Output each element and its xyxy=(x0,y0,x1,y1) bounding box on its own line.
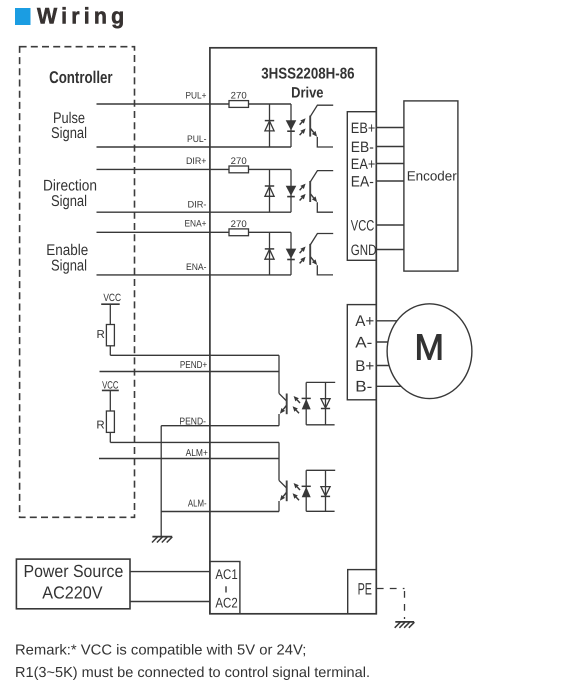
svg-text:GND: GND xyxy=(351,242,377,259)
svg-text:270: 270 xyxy=(231,91,247,102)
svg-text:PEND+: PEND+ xyxy=(180,360,207,371)
phototransistor (ALM opto) xyxy=(278,442,280,480)
svg-text:VCC: VCC xyxy=(351,217,375,234)
power source box xyxy=(16,559,130,609)
wire resistor to LED branch (DIR) xyxy=(249,168,292,170)
wire VCC2 pull-up rail xyxy=(110,441,279,443)
diode clamp (PUL) xyxy=(269,104,271,147)
drive box xyxy=(210,48,376,614)
wire AC line 1 xyxy=(130,571,210,573)
svg-text:VCC: VCC xyxy=(103,292,121,304)
wire ALM+ xyxy=(99,458,279,460)
svg-text:PUL-: PUL- xyxy=(187,134,207,145)
wire EB+ to encoder xyxy=(376,127,404,129)
resistor R1 xyxy=(106,325,114,346)
opto light arrows (PEND) xyxy=(297,400,300,403)
svg-text:ENA-: ENA- xyxy=(186,262,207,273)
diode clamp (ALM opto) xyxy=(325,470,327,511)
phototransistor (DIR opto) xyxy=(309,181,311,202)
wire ALM- xyxy=(161,511,279,513)
svg-text:R1(3~5K) must be connected to: R1(3~5K) must be connected to control si… xyxy=(15,665,370,681)
phototransistor (PEND opto) xyxy=(278,355,280,393)
motor terminal block xyxy=(347,305,376,400)
wire EB- to encoder xyxy=(376,146,404,148)
wire PUL- xyxy=(97,146,292,148)
wire opto rails (PEND) xyxy=(306,381,335,383)
opto light arrows (PUL) xyxy=(300,122,303,125)
controller box (dashed) xyxy=(20,47,135,518)
ground (earth at PE) xyxy=(395,621,414,623)
wire ENA- xyxy=(97,274,292,276)
ground (signal) xyxy=(152,536,172,538)
svg-text:270: 270 xyxy=(231,219,247,230)
wire A- to motor xyxy=(376,341,404,343)
LED (ENA opto) xyxy=(290,232,292,275)
wire GND to encoder xyxy=(376,249,404,251)
svg-text:ALM-: ALM- xyxy=(188,498,207,509)
svg-text:EB-: EB- xyxy=(351,139,374,156)
svg-text:AC220V: AC220V xyxy=(42,583,103,603)
svg-text:M: M xyxy=(415,327,445,368)
wire EA- to encoder xyxy=(376,180,404,182)
svg-text:AC2: AC2 xyxy=(215,595,237,611)
svg-text:R: R xyxy=(96,420,104,432)
terminal block PE xyxy=(348,570,377,614)
svg-text:R: R xyxy=(96,329,104,341)
svg-text:Encoder: Encoder xyxy=(407,169,457,184)
wire signal ground bus xyxy=(160,426,162,537)
wire DIR- xyxy=(97,211,292,213)
wire opto rails (ALM) xyxy=(306,469,335,471)
diode clamp (DIR) xyxy=(269,169,271,212)
phototransistor (PUL opto) xyxy=(309,116,311,137)
svg-text:Enable: Enable xyxy=(46,242,88,259)
svg-text:AC1: AC1 xyxy=(215,566,237,582)
svg-text:270: 270 xyxy=(231,156,247,167)
svg-text:3HSS2208H-86: 3HSS2208H-86 xyxy=(261,65,355,82)
svg-text:Signal: Signal xyxy=(51,193,87,210)
wire PUL+ xyxy=(97,103,230,105)
terminal divider dash xyxy=(225,586,227,592)
wire VCC1 pull-up rail xyxy=(110,354,279,356)
wire resistor to LED branch (PUL) xyxy=(249,103,292,105)
diode clamp (PEND opto) xyxy=(325,382,327,424)
LED (DIR opto) xyxy=(290,169,292,212)
svg-text:PEND-: PEND- xyxy=(179,416,206,427)
wire PEND- xyxy=(161,425,279,427)
svg-text:ENA+: ENA+ xyxy=(185,219,207,230)
encoder box xyxy=(404,101,458,271)
resistor 270 (PUL) xyxy=(229,101,249,108)
LED (PUL opto) xyxy=(290,104,292,147)
wire PE to earth (dashed) xyxy=(377,588,405,590)
resistor 270 (DIR) xyxy=(229,166,249,173)
svg-text:B+: B+ xyxy=(355,358,374,375)
wire B- to motor xyxy=(376,385,404,387)
wire B+ to motor xyxy=(376,365,404,367)
wire VCC to encoder xyxy=(376,224,404,226)
wire resistor to LED branch (ENA) xyxy=(249,231,292,233)
svg-text:EB+: EB+ xyxy=(351,120,376,137)
LED (ALM opto) xyxy=(305,470,307,511)
diode clamp (ENA) xyxy=(269,232,271,275)
svg-text:Signal: Signal xyxy=(51,125,87,142)
svg-text:Signal: Signal xyxy=(51,258,87,275)
opto light arrows (ENA) xyxy=(300,250,303,253)
svg-text:B-: B- xyxy=(355,379,372,396)
opto light arrows (ALM) xyxy=(297,487,300,490)
svg-text:Remark:* VCC is compatible wit: Remark:* VCC is compatible with 5V or 24… xyxy=(15,643,306,659)
svg-text:ALM+: ALM+ xyxy=(186,448,208,459)
resistor R2 xyxy=(106,411,114,432)
svg-text:Direction: Direction xyxy=(43,177,97,194)
phototransistor (ENA opto) xyxy=(309,244,311,265)
wire ENA+ xyxy=(97,231,230,233)
svg-text:Wiring: Wiring xyxy=(37,3,128,28)
wire DIR+ xyxy=(97,168,230,170)
encoder terminal block xyxy=(347,112,376,261)
resistor 270 (ENA) xyxy=(229,229,249,236)
wire EA+ to encoder xyxy=(376,163,404,165)
wire AC line 2 xyxy=(130,601,210,603)
opto light arrows (DIR) xyxy=(300,187,303,190)
svg-text:DIR+: DIR+ xyxy=(186,156,207,167)
svg-text:A+: A+ xyxy=(355,313,374,330)
wire PEND+ xyxy=(100,371,280,373)
svg-text:Controller: Controller xyxy=(49,68,113,87)
terminal block AC1/AC2 xyxy=(210,562,240,614)
svg-text:Power Source: Power Source xyxy=(24,561,124,581)
wire A+ to motor xyxy=(376,320,404,322)
svg-text:PUL+: PUL+ xyxy=(186,90,207,101)
svg-text:EA+: EA+ xyxy=(351,156,376,173)
motor M circle xyxy=(387,304,472,399)
LED (PEND opto) xyxy=(305,382,307,424)
svg-text:PE: PE xyxy=(358,580,372,598)
svg-text:DIR-: DIR- xyxy=(188,199,207,210)
title bullet xyxy=(15,8,31,25)
svg-text:EA-: EA- xyxy=(351,173,374,190)
svg-text:Drive: Drive xyxy=(291,84,323,101)
svg-text:A-: A- xyxy=(355,334,372,351)
